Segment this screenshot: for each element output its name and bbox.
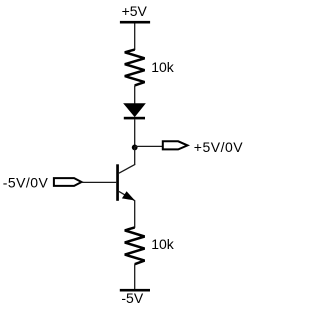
wire input port to Q1 base <box>82 181 117 183</box>
wire R1 to D1 <box>134 85 136 104</box>
+5V power rail bar <box>120 21 150 24</box>
output port connector <box>163 141 188 149</box>
wire D1 to node A <box>134 119 136 147</box>
svg-text:-5V: -5V <box>121 290 143 306</box>
transistor Q1 <box>116 147 135 201</box>
wire +5V rail to R1 <box>134 24 136 51</box>
-5V power rail bar <box>120 289 150 292</box>
node A junction dot <box>132 145 138 151</box>
resistor R2 <box>125 227 145 264</box>
diode D1 anode triangle <box>124 104 145 117</box>
input port connector <box>54 178 82 186</box>
svg-text:10k: 10k <box>151 59 175 75</box>
resistor R1 <box>125 50 145 86</box>
wire Q1 emitter to R2 <box>134 201 136 228</box>
wire R2 to -5V rail <box>134 264 136 289</box>
svg-text:+5V/0V: +5V/0V <box>194 139 243 155</box>
svg-text:+5V: +5V <box>122 3 148 19</box>
diode D1 cathode bar <box>124 117 145 120</box>
wire node A to output port <box>135 145 163 147</box>
svg-text:-5V/0V: -5V/0V <box>3 175 49 191</box>
svg-text:10k: 10k <box>151 236 175 252</box>
